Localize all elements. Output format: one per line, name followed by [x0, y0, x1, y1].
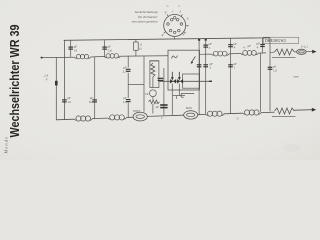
label C9 value [123, 96, 128, 105]
label C14 value [233, 62, 237, 70]
underline R4 [272, 57, 296, 59]
label C13 value [209, 62, 213, 70]
wire vibrator feed vertical [143, 56, 145, 112]
armature arrow [191, 56, 196, 64]
capacitor C15 [268, 67, 273, 69]
wire lamp to rail [152, 97, 154, 114]
capacitor C1 [68, 47, 73, 49]
resistor R5 zigzag [275, 108, 295, 114]
capacitor C13 [203, 65, 208, 67]
pin label z right-low [186, 24, 189, 28]
inductor L5 [74, 116, 92, 121]
wire battery lead vertical [55, 58, 57, 120]
node contact line end [209, 80, 212, 82]
capacitor C10 (box right) [158, 78, 164, 80]
wire V-j [198, 40, 200, 115]
tube socket ticks [164, 14, 189, 33]
maker name Mende (rotated) [3, 137, 8, 155]
wire C3 vertical lower [127, 73, 129, 98]
wire C11 vertical [163, 68, 165, 115]
wire stub to vibrator column [128, 84, 144, 86]
svg-text:µF: µF [248, 44, 252, 48]
inductor L6 [108, 115, 127, 120]
contact actuation arrow 2 [178, 72, 181, 80]
svg-text:für Zerhacker: für Zerhacker [138, 15, 158, 19]
arrow output bottom [312, 108, 316, 112]
choke Dr W (oval) [184, 111, 198, 119]
smudge 1 [283, 144, 301, 152]
wire bottom rail seg2 [92, 117, 108, 120]
lamp Dr circle [150, 90, 157, 97]
caption line 1 [135, 10, 158, 14]
svg-text:Dr: Dr [144, 92, 149, 96]
switch contact blob on battery lead [55, 81, 58, 86]
svg-text:d: d [162, 33, 164, 37]
inductor L1 [75, 55, 91, 59]
capacitor C4 (above coil line) [203, 45, 208, 47]
contact pair 2 (bowtie) [177, 79, 183, 83]
wire tube to rail [174, 36, 176, 39]
label DKE38/GW2 [263, 37, 299, 43]
label C1 value [74, 45, 78, 53]
wire DKE line to arrow [306, 51, 313, 53]
wire input line (top-left coil line) [41, 56, 75, 58]
capacitor C9 [126, 100, 131, 102]
label C6 value [256, 42, 260, 50]
label 2 below C11 [161, 117, 163, 120]
node rail junction dot 2 [205, 39, 207, 41]
wire coil line right section [199, 53, 266, 54]
label C5 value [233, 42, 237, 50]
wire R1 bottom lead [135, 50, 137, 56]
label F2 [133, 109, 140, 113]
wire bottom rail seg4 [147, 115, 183, 116]
smudge 2 [236, 117, 239, 120]
wire bottom rail seg6 [224, 112, 243, 115]
capacitor C14 [228, 65, 233, 67]
svg-text:DrW: DrW [186, 106, 192, 110]
svg-text:Mende: Mende [3, 137, 8, 155]
wire left edge vertical [63, 40, 65, 120]
label 2,4V near battery lead [44, 74, 49, 82]
inductor L8 [243, 110, 262, 115]
svg-text:Wechselrichter WR 39: Wechselrichter WR 39 [7, 25, 22, 138]
wire R4 to fuse [295, 51, 297, 53]
wire mid vertical leg [94, 57, 96, 120]
wire right coil-line vert [259, 53, 261, 112]
wire bottom rail left [56, 118, 75, 121]
wire to damper box [150, 60, 159, 62]
wire stub below contact 1 [171, 84, 173, 115]
wire C1 leg [70, 40, 72, 57]
wire contact reed line [159, 80, 211, 82]
label F1 [301, 44, 309, 49]
inductor L3 [212, 51, 230, 56]
arrow output top [312, 50, 316, 54]
label C8 value [89, 96, 94, 105]
wire lower link [173, 96, 185, 99]
tube top mark 2 [178, 4, 181, 8]
capacitor C6 [260, 45, 265, 47]
capacitor C11 [160, 105, 167, 108]
label L4 [243, 44, 251, 49]
vibrator unit box [168, 50, 200, 90]
svg-text:DKE38/GW2: DKE38/GW2 [265, 39, 286, 43]
svg-text:05Wf: 05Wf [133, 109, 140, 113]
label C2 value [107, 45, 112, 54]
wire coil line mid segment [91, 55, 106, 58]
wire C5 lower leg [230, 54, 232, 114]
label C11 value [155, 101, 159, 109]
svg-text:×ı: ×ı [166, 4, 169, 8]
damper resistor box outline [150, 61, 159, 88]
node input terminal dot [41, 57, 43, 59]
capacitor C5 [228, 45, 233, 47]
capacitor C3 [126, 69, 131, 71]
tube socket pins [167, 17, 183, 34]
pin label 3 right [187, 16, 189, 20]
wire C2 leg [104, 40, 106, 56]
svg-text:von unten gesehen: von unten gesehen [132, 20, 158, 24]
wire bottom rail to arrow [295, 109, 313, 112]
contact actuation arrow 1 [171, 72, 174, 80]
pin label f top-right [180, 10, 182, 14]
label C3 value [123, 65, 128, 74]
caption line 3 [132, 20, 158, 24]
pin label d bottom-left [162, 33, 164, 37]
wire V-k lower [205, 54, 207, 114]
wire bottom rail seg7 [261, 111, 275, 113]
wire coil line right segment [120, 55, 169, 57]
transformer inner box [183, 74, 200, 88]
fuse F2 (oval) with label [133, 112, 147, 121]
pin label V top-left [164, 11, 167, 15]
title text Wechselrichter WR 39 (rotated) [7, 25, 22, 138]
wire R1 top lead [135, 40, 137, 42]
label R1 value [139, 42, 142, 50]
wire top HT rail [64, 38, 270, 41]
wire C6 leg [262, 38, 264, 53]
wire DKE line left [270, 51, 275, 53]
tube top mark 1 [166, 4, 169, 8]
capacitor C8 [92, 100, 97, 102]
wire C15 leg [269, 52, 271, 111]
resistor R3 small zigzag [149, 100, 160, 104]
faint dash right mid [294, 76, 299, 78]
label C15 value [273, 64, 278, 73]
label C7 value [67, 96, 71, 104]
label DrW [186, 106, 192, 110]
capacitor C7 (left edge, lower) [62, 100, 67, 102]
inductor L4 [241, 51, 258, 56]
wire stub below contact 2 [178, 84, 180, 96]
pin label V bottom-right [182, 32, 185, 36]
svg-text:12: 12 [67, 100, 71, 104]
svg-text:16: 16 [74, 49, 78, 53]
label Dr [144, 92, 149, 96]
capacitor C12 [197, 65, 202, 67]
wire bottom rail seg5 [198, 113, 206, 115]
pin label x top [172, 9, 174, 13]
wire bottom rail seg3 [127, 116, 134, 118]
contact pair 1 (bowtie) [170, 79, 176, 83]
svg-text:ȷ·: ȷ· [178, 4, 181, 8]
capacitor C2 [102, 47, 107, 49]
resistor R2 (zigzag in box) [151, 63, 155, 88]
node rail junction dot 1 [198, 39, 200, 41]
wire V-k upper [205, 40, 207, 55]
wire C3 vertical upper [127, 56, 129, 68]
inductor L7 [206, 111, 225, 116]
resistor R4 zigzag [275, 49, 295, 55]
inductor L2 [104, 54, 120, 58]
wire rail corner to DKE line [269, 38, 271, 53]
resistor R1 [134, 42, 139, 50]
fuse F1 (oval) [297, 49, 307, 54]
underline R5 [272, 116, 296, 118]
svg-text:µF: µF [156, 105, 160, 109]
label C4 value [208, 42, 212, 50]
caption line 2 [138, 15, 158, 19]
svg-text:Sockelschaltung: Sockelschaltung [135, 10, 158, 14]
wire C9 to rail [128, 103, 130, 118]
wire C5 leg [230, 38, 232, 54]
svg-text:×: × [172, 9, 174, 13]
wire inner stub with hook [181, 94, 194, 98]
vibrator drive coil curl [172, 56, 178, 59]
tube socket circle [164, 14, 186, 36]
svg-text:3: 3 [187, 16, 189, 20]
